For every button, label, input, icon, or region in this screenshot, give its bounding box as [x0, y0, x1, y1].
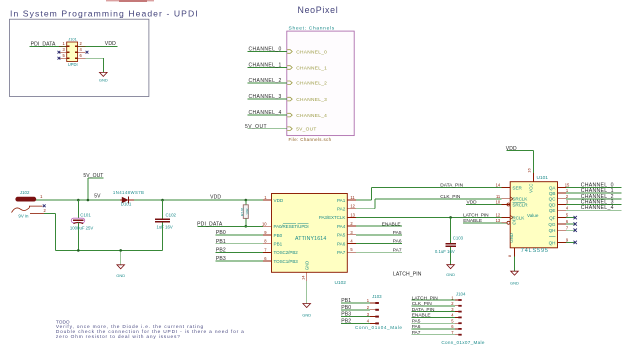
svg-text:PA6: PA6	[412, 324, 421, 330]
sheet name Sheet: Channels	[289, 25, 335, 31]
svg-text:PA7: PA7	[412, 330, 421, 336]
node CLK_PIN at J104 (label)	[412, 301, 433, 307]
capacitor C103	[445, 217, 456, 264]
reference D101	[121, 202, 132, 207]
capacitor C101	[71, 200, 84, 250]
svg-text:PA6: PA6	[393, 239, 402, 245]
node CHANNEL_0 (label)	[249, 47, 282, 53]
ground at J101	[99, 72, 108, 82]
node 5V (label)	[94, 194, 101, 200]
node PA6 (label)	[393, 239, 402, 245]
svg-text:GND: GND	[446, 272, 455, 277]
connector J104	[455, 299, 462, 335]
svg-text:13: 13	[496, 218, 501, 223]
svg-text:1000uF 25V: 1000uF 25V	[70, 226, 94, 231]
svg-text:GND: GND	[509, 233, 514, 243]
value 9V in of J102	[18, 213, 29, 218]
svg-text:Conn_01x07_Male: Conn_01x07_Male	[441, 340, 484, 345]
node VDD on rail (label)	[210, 195, 221, 201]
wire LATCH_PIN from PA3 to RCLK	[356, 216, 501, 218]
svg-text:PB0: PB0	[341, 305, 351, 311]
no-connect U101 QH'	[566, 241, 577, 244]
svg-text:G: G	[512, 221, 516, 226]
node PDI_DATA at MCU (label)	[197, 222, 223, 228]
U101 output pin stubs	[558, 187, 567, 242]
svg-text:ENABLE: ENABLE	[382, 221, 401, 227]
node PB1 (label)	[216, 239, 226, 245]
svg-text:CLK_PIN: CLK_PIN	[412, 301, 433, 307]
junction at 5V_OUT tap	[87, 199, 90, 202]
U101 pin names	[509, 184, 557, 246]
wire PB1 to J103	[341, 302, 370, 304]
note: TODO text block	[56, 319, 245, 340]
node LATCH_PIN free label	[393, 272, 422, 278]
svg-text:U102: U102	[335, 280, 347, 286]
no-connect J101 pin 4	[86, 51, 89, 54]
node CHANNEL_1 (label)	[249, 63, 282, 69]
svg-text:PB2: PB2	[341, 319, 351, 325]
svg-text:11: 11	[496, 194, 501, 199]
wire PB0 to MCU	[216, 234, 263, 236]
svg-text:CHANNEL_2: CHANNEL_2	[249, 78, 282, 84]
svg-text:1uF 16V: 1uF 16V	[157, 224, 173, 229]
node CLK_PIN (label)	[440, 194, 461, 200]
svg-text:0.1uF 16V: 0.1uF 16V	[435, 249, 455, 254]
wire CHANNEL_4 into sheet	[247, 114, 286, 116]
wire VDD to U101 VCC	[506, 151, 533, 173]
reference J102	[20, 190, 30, 195]
svg-text:C102: C102	[166, 212, 177, 217]
note: sheet title text	[10, 8, 199, 18]
value 74LS595 of U101	[521, 248, 549, 254]
node PB0 (label)	[216, 230, 226, 236]
svg-text:QH: QH	[549, 240, 556, 245]
wire CLK_PIN to J104	[412, 305, 455, 307]
svg-text:LATCH_PIN: LATCH_PIN	[393, 272, 422, 278]
reference C102	[166, 212, 177, 217]
svg-text:QF: QF	[549, 216, 556, 221]
svg-text:12: 12	[496, 213, 501, 218]
svg-text:15: 15	[565, 183, 570, 188]
wire PB0 to J103	[341, 309, 370, 311]
svg-text:QG: QG	[548, 222, 556, 227]
svg-text:GND: GND	[99, 78, 108, 83]
junction at ground rail GND stub	[119, 249, 122, 252]
svg-text:14: 14	[300, 275, 305, 280]
ground at U101	[510, 271, 519, 285]
svg-text:QE: QE	[549, 208, 556, 213]
svg-text:Conn_01x04_Male: Conn_01x04_Male	[355, 325, 403, 330]
wire PB3 to J103	[341, 316, 370, 318]
svg-text:PA5: PA5	[337, 233, 346, 238]
junction R101 bottom	[245, 225, 248, 228]
wire DATA_PIN from PA1 to SER	[356, 187, 501, 200]
node PA7 at J104 (label)	[412, 330, 421, 336]
svg-text:QB: QB	[549, 191, 556, 196]
svg-text:CLK_PIN: CLK_PIN	[440, 194, 461, 200]
svg-text:10: 10	[262, 221, 267, 226]
svg-text:PB1: PB1	[274, 242, 283, 247]
mcu U102	[263, 194, 356, 282]
wire CHANNEL_1 from U101	[566, 192, 621, 194]
shift register U101	[502, 173, 558, 257]
J103 pin numbers	[367, 298, 370, 323]
svg-text:CHANNEL_1: CHANNEL_1	[296, 65, 327, 71]
node PA5 at J104 (label)	[412, 319, 421, 325]
svg-text:13: 13	[350, 212, 355, 217]
value Conn_01x04_Male of J103	[355, 325, 403, 330]
wire MCU GND pin down	[306, 281, 308, 304]
no-connect U101 QH	[566, 229, 577, 232]
wire ENABLE to G pin	[463, 222, 507, 224]
value 1uF 16V of C102	[157, 224, 173, 229]
svg-text:J102: J102	[20, 190, 30, 195]
wire PA7 stub	[356, 251, 402, 253]
svg-text:5V_OUT: 5V_OUT	[245, 124, 267, 130]
svg-text:SRCLK: SRCLK	[512, 197, 528, 202]
node PDI_DATA (label)	[31, 41, 56, 47]
node CHANNEL_3 at U101 (label)	[581, 200, 614, 206]
wire diode cathode to MCU VDD pin	[134, 199, 263, 201]
node LATCH_PIN (label)	[463, 213, 489, 219]
note: NeoPixel title	[298, 5, 339, 15]
svg-text:J104: J104	[456, 291, 466, 296]
svg-text:GND: GND	[510, 281, 519, 286]
U101 pin numbers	[496, 168, 570, 258]
svg-text:PB3: PB3	[341, 312, 351, 318]
wire CHANNEL_1 into sheet	[247, 67, 286, 69]
svg-text:11: 11	[350, 195, 355, 200]
value 1N4148WS7B of D101	[113, 190, 144, 195]
svg-text:VDD: VDD	[467, 200, 478, 206]
no-connect J102 switch pin	[43, 204, 46, 207]
no-connect U101 QG	[566, 222, 577, 225]
no-connect U101 QF	[566, 216, 577, 219]
reference C103	[453, 236, 464, 241]
svg-text:NeoPixel: NeoPixel	[298, 5, 339, 15]
no-connect J101 pin 3	[58, 51, 61, 54]
node 5V_OUT (label)	[245, 124, 267, 130]
svg-text:PDI_DATA: PDI_DATA	[197, 222, 223, 228]
svg-text:J103: J103	[372, 294, 382, 299]
node PA6 at J104 (label)	[412, 324, 421, 330]
node PB2 at J103 (label)	[341, 319, 351, 325]
J101 pin numbers	[63, 41, 83, 58]
svg-text:PB2: PB2	[216, 248, 226, 254]
svg-text:PA7: PA7	[393, 247, 402, 253]
svg-text:RCLK: RCLK	[512, 215, 525, 220]
svg-text:CHANNEL_0: CHANNEL_0	[249, 47, 282, 53]
wire PDI_DATA to J101 pin 1	[30, 45, 67, 47]
node PB1 at J103 (label)	[341, 298, 351, 304]
svg-text:QC: QC	[549, 197, 557, 202]
value 0.1uF 16V of C103	[435, 249, 455, 254]
wire CHANNEL_0 from U101	[566, 186, 621, 188]
wire CHANNEL_3 from U101	[566, 204, 621, 206]
svg-text:ENABLE: ENABLE	[463, 218, 482, 224]
svg-text:1N4148WS7B: 1N4148WS7B	[113, 190, 144, 195]
svg-text:GND: GND	[304, 261, 309, 270]
wire J102 pin 1 to diode	[36, 199, 120, 201]
value 1000uF 25V of C101	[70, 226, 94, 231]
svg-text:LATCH_PIN: LATCH_PIN	[412, 295, 439, 301]
node ENABLE at PA4 (label)	[382, 221, 401, 227]
svg-text:CHANNEL_4: CHANNEL_4	[296, 113, 327, 119]
svg-text:C101: C101	[80, 213, 91, 218]
svg-text:PA2: PA2	[337, 207, 346, 212]
node ENABLE at J104 (label)	[412, 313, 431, 319]
svg-text:PDI_DATA: PDI_DATA	[31, 41, 56, 47]
svg-text:ATTINY1614: ATTINY1614	[295, 236, 326, 242]
value Conn_01x07_Male of J104	[441, 340, 484, 345]
svg-text:CHANNEL_4: CHANNEL_4	[581, 205, 614, 211]
reference J103	[372, 294, 382, 299]
node VDD at SRCLR (label)	[467, 200, 478, 206]
svg-text:VDD: VDD	[210, 195, 221, 201]
svg-text:PB3: PB3	[216, 256, 226, 262]
svg-text:VDD: VDD	[274, 198, 284, 203]
svg-text:ENABLE: ENABLE	[412, 313, 431, 319]
U102 pin numbers	[262, 195, 356, 280]
svg-text:CHANNEL_1: CHANNEL_1	[249, 63, 282, 69]
svg-text:U101: U101	[537, 175, 549, 181]
wire ground rail bottom	[55, 249, 162, 251]
node CHANNEL_2 (label)	[249, 78, 282, 84]
svg-text:QH: QH	[549, 228, 556, 233]
svg-text:VCC: VCC	[529, 184, 534, 193]
svg-text:9V in: 9V in	[18, 213, 29, 218]
junction at ground rail C101	[77, 249, 80, 252]
svg-text:SRCLR: SRCLR	[512, 202, 528, 207]
sheet pin CHANNEL_3	[287, 97, 327, 103]
svg-text:CHANNEL_0: CHANNEL_0	[296, 49, 327, 55]
wire PB1 to MCU	[216, 243, 263, 245]
node CHANNEL_1 at U101 (label)	[581, 188, 614, 194]
connector J102 barrel jack	[12, 197, 45, 214]
node DATA_PIN (label)	[440, 182, 463, 188]
svg-text:UPDI: UPDI	[68, 62, 78, 67]
reference J101	[68, 36, 77, 41]
reference J104	[456, 291, 466, 296]
wire DATA_PIN to J104	[412, 311, 455, 313]
resistor R101	[243, 200, 248, 226]
svg-text:R101: R101	[241, 207, 245, 216]
svg-text:VDD: VDD	[105, 41, 116, 47]
sheet pin CHANNEL_0	[287, 49, 327, 55]
svg-text:16: 16	[527, 168, 532, 173]
diode D101	[120, 197, 134, 204]
J104 pin numbers	[451, 295, 454, 335]
wire PB3 to MCU	[216, 260, 263, 262]
node CHANNEL_2 at U101 (label)	[581, 194, 614, 200]
wire CHANNEL_2 into sheet	[247, 82, 286, 84]
svg-text:File: Channels.sch: File: Channels.sch	[289, 137, 332, 142]
svg-text:Value: Value	[527, 213, 539, 218]
ground at power rail	[116, 250, 125, 278]
svg-text:CHANNEL_3: CHANNEL_3	[249, 94, 282, 100]
node PB3 at J103 (label)	[341, 312, 351, 318]
svg-text:QA: QA	[549, 185, 557, 190]
svg-text:PB1: PB1	[341, 298, 351, 304]
wire PB2 to J103	[341, 322, 370, 324]
svg-text:74LS595: 74LS595	[521, 248, 549, 254]
svg-text:5V_OUT: 5V_OUT	[83, 173, 103, 179]
wire CLK_PIN from PA2 to SRCLK	[356, 199, 501, 209]
node PA5 (label)	[393, 230, 402, 236]
value of R101	[246, 208, 250, 215]
svg-text:12: 12	[350, 204, 355, 209]
ground at C103	[446, 265, 455, 277]
junction at C101 tap	[77, 199, 80, 202]
wire J102 pin 2 down to ground rail	[44, 214, 55, 251]
reference U101	[537, 175, 549, 181]
sheet file File: Channels.sch	[289, 137, 332, 142]
node ENABLE at G (label)	[463, 218, 482, 224]
svg-text:PB0: PB0	[274, 233, 283, 238]
svg-text:DATA_PIN: DATA_PIN	[440, 182, 463, 188]
node PB0 at J103 (label)	[341, 305, 351, 311]
wire PA6 to J104	[412, 328, 455, 330]
wire PA5 to J104	[412, 322, 455, 324]
wire ENABLE stub from PA4	[356, 225, 402, 227]
junction R101 top	[245, 199, 248, 202]
wire CHANNEL_3 into sheet	[247, 98, 286, 100]
wire VDD to SRCLR	[466, 204, 502, 206]
node DATA_PIN at J104 (label)	[412, 307, 435, 313]
node CHANNEL_3 (label)	[249, 94, 282, 100]
connector J101	[59, 42, 86, 62]
svg-text:TOSC1/PB3: TOSC1/PB3	[274, 259, 299, 264]
svg-text:GND: GND	[302, 313, 311, 318]
wire ENABLE to J104	[412, 316, 455, 318]
connector J103	[370, 302, 379, 324]
svg-text:10: 10	[496, 200, 501, 205]
reference R101	[241, 207, 245, 216]
svg-text:VDD: VDD	[506, 146, 517, 152]
svg-text:CHANNEL_3: CHANNEL_3	[296, 97, 327, 103]
svg-text:PA5: PA5	[393, 230, 402, 236]
wire PA7 to J104	[412, 334, 455, 336]
svg-text:D101: D101	[121, 202, 132, 207]
ground at MCU	[302, 304, 311, 318]
svg-text:14: 14	[496, 183, 501, 188]
value ATTINY1614 of U102	[295, 236, 326, 242]
svg-text:LATCH_PIN: LATCH_PIN	[463, 213, 489, 219]
node PA7 (label)	[393, 247, 402, 253]
wire J101 pin 6 to ground	[78, 58, 104, 72]
no-connect J101 pin 5	[58, 57, 61, 60]
svg-text:PA7: PA7	[337, 250, 346, 255]
svg-text:QD: QD	[549, 202, 557, 207]
svg-text:PA5: PA5	[412, 319, 421, 325]
svg-text:PB0: PB0	[216, 230, 226, 236]
note: cropped text artifact at top edge	[106, 0, 154, 2]
wire CHANNEL_2 from U101	[566, 198, 621, 200]
J102 pin numbers	[40, 194, 46, 213]
node CHANNEL_0 at U101 (label)	[581, 182, 614, 188]
node VDD at J101 (label)	[105, 41, 116, 47]
reference C101	[80, 213, 91, 218]
wire U101 GND down	[514, 257, 516, 272]
svg-text:TOSC2/PB2: TOSC2/PB2	[274, 250, 299, 255]
U102 left pin names	[274, 198, 309, 264]
wire CHANNEL_4 from U101	[566, 209, 621, 211]
U102 right pin names	[304, 198, 345, 270]
node VDD at U101 (label)	[506, 146, 517, 152]
node 5V_OUT (label)	[83, 173, 103, 179]
svg-text:PB1: PB1	[216, 239, 226, 245]
wire CHANNEL_0 into sheet	[247, 51, 286, 53]
node CHANNEL_4 at U101 (label)	[581, 205, 614, 211]
node LATCH_PIN at J104 (label)	[412, 295, 439, 301]
junction at C102 tap	[161, 199, 164, 202]
svg-text:CHANNEL_4: CHANNEL_4	[249, 110, 282, 116]
svg-text:PA1: PA1	[337, 198, 346, 203]
wire PA5 stub	[356, 234, 402, 236]
svg-text:J101: J101	[68, 36, 77, 41]
wire 5V_OUT into sheet	[247, 128, 286, 130]
svg-text:PA0/RESET/UPDI: PA0/RESET/UPDI	[274, 224, 309, 229]
svg-text:5V_OUT: 5V_OUT	[296, 127, 316, 133]
svg-text:Sheet: Channels: Sheet: Channels	[289, 25, 335, 31]
junction at C103 tap on latch line	[449, 216, 452, 219]
wire PB2 to MCU	[216, 251, 263, 253]
svg-text:PA3/EXTCLK: PA3/EXTCLK	[319, 215, 345, 220]
svg-text:10K: 10K	[246, 208, 250, 215]
svg-text:In System Programming Header -: In System Programming Header - UPDI	[10, 8, 199, 18]
svg-text:GND: GND	[116, 273, 125, 278]
svg-text:DATA_PIN: DATA_PIN	[412, 307, 435, 313]
svg-text:5V: 5V	[94, 194, 101, 200]
svg-text:C103: C103	[453, 236, 464, 241]
svg-text:PA4: PA4	[337, 224, 346, 229]
svg-text:PA6: PA6	[337, 241, 346, 246]
svg-text:SER: SER	[512, 185, 522, 190]
node PB3 (label)	[216, 256, 226, 262]
capacitor C102	[155, 200, 170, 250]
reference U102	[335, 280, 347, 286]
value Value of U101	[527, 213, 539, 218]
wire PA6 stub	[356, 243, 402, 245]
node CHANNEL_4 (label)	[249, 110, 282, 116]
wire LATCH_PIN to J104	[412, 299, 455, 301]
hierarchical sheet Channels	[287, 31, 354, 136]
svg-text:CHANNEL_2: CHANNEL_2	[296, 81, 327, 87]
svg-text:zero Ohm resistor to deal with: zero Ohm resistor to deal with any issue…	[56, 334, 181, 340]
node PB2 (label)	[216, 248, 226, 254]
value UPDI of J101	[68, 62, 78, 67]
sheet pin CHANNEL_4	[287, 113, 327, 119]
wire PDI_DATA to MCU pin 10	[198, 225, 263, 227]
wire 5V_OUT stub up	[88, 178, 104, 200]
sheet pin CHANNEL_1	[287, 65, 327, 71]
sheet pin CHANNEL_2	[287, 81, 327, 87]
wire J101 pin 2 to VDD	[78, 45, 118, 47]
sheet pin 5V_OUT	[287, 127, 316, 133]
note: ISP section boundary box	[10, 19, 149, 96]
